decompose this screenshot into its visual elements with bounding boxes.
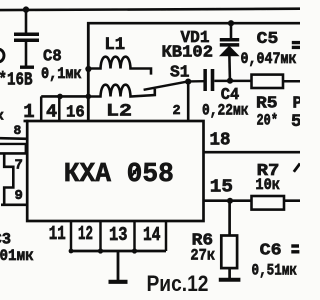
wire to pin 2	[187, 82, 190, 122]
node R6 tap	[227, 198, 233, 204]
node box13/14 corner	[132, 248, 137, 253]
svg-text:КХА 058: КХА 058	[64, 159, 174, 189]
wire top rail A	[0, 9, 300, 10]
wire pin 18	[204, 151, 301, 154]
svg-text:Рис.12: Рис.12	[147, 271, 209, 296]
svg-text:*16В: *16В	[0, 71, 33, 91]
svg-text:1: 1	[23, 101, 34, 123]
node box11 corner	[69, 249, 74, 254]
node VD1 tap on rail B	[228, 20, 234, 26]
svg-text:0,22мк: 0,22мк	[202, 102, 249, 120]
node L1 tap	[85, 66, 91, 72]
wire R6 stem	[228, 201, 231, 236]
svg-text:20*: 20*	[257, 112, 279, 130]
capacitor C5	[292, 41, 300, 44]
partial component tick at right edge	[294, 164, 300, 172]
ground pin 13	[109, 280, 128, 284]
svg-text:15: 15	[210, 177, 233, 198]
svg-text:8: 8	[14, 123, 22, 138]
wire C4 to R5	[214, 80, 251, 83]
inductor L1	[88, 57, 151, 75]
wire L-tank left wall	[87, 22, 90, 122]
wire pin 8 box bottom	[0, 137, 27, 140]
switch S1 arm	[144, 81, 188, 89]
node at box 4/16 divider	[57, 94, 63, 100]
wire chip top edge stub left	[24, 120, 29, 123]
svg-text:Р: Р	[293, 94, 301, 113]
svg-text:14: 14	[143, 224, 161, 246]
svg-text:L2: L2	[106, 102, 132, 122]
wire top rail B	[87, 22, 300, 25]
pin box walls bottom	[70, 221, 73, 251]
svg-text:4: 4	[46, 101, 57, 122]
svg-text:11: 11	[49, 223, 66, 245]
wire over pin boxes 4,16	[41, 95, 88, 98]
svg-text:0,1мк: 0,1мк	[41, 65, 82, 83]
capacitor C4	[203, 69, 207, 91]
svg-text:L1: L1	[104, 35, 125, 55]
wire pin 15	[204, 199, 301, 202]
wire R6 to ground	[228, 268, 231, 279]
svg-text:12: 12	[78, 223, 93, 245]
wire pin 13 to ground	[117, 251, 120, 281]
svg-text:18: 18	[210, 131, 231, 151]
wire stub left	[0, 144, 26, 153]
diode VD1 varicap	[230, 23, 233, 38]
node box12/13 corner	[98, 248, 103, 253]
resistor R5	[252, 75, 284, 88]
svg-text:C5: C5	[257, 30, 279, 49]
svg-text:16: 16	[66, 104, 85, 123]
svg-text:КВ102: КВ102	[162, 44, 214, 63]
ground C8 bottom bar	[20, 65, 34, 68]
pin box walls 4,16	[40, 96, 43, 121]
svg-text:R5: R5	[256, 93, 278, 112]
inductor L2	[88, 85, 155, 97]
svg-text:10к: 10к	[255, 176, 280, 194]
svg-text:0,047мк: 0,047мк	[241, 50, 297, 68]
resistor R6	[221, 236, 237, 269]
resistor R7	[252, 196, 285, 210]
pin boxes 11-14 bottom bar	[70, 250, 167, 253]
pin 7/9 box bracket	[0, 153, 27, 204]
svg-text:13: 13	[109, 224, 128, 246]
svg-text:01мк: 01мк	[0, 247, 34, 265]
svg-text:5: 5	[291, 112, 300, 132]
node wall joint	[86, 94, 92, 100]
node C4/R5/VD1 junction	[227, 78, 233, 84]
partial capacitor C7 glyph at left edge	[0, 49, 4, 62]
capacitor C8	[25, 10, 28, 34]
svg-text:C6: C6	[260, 241, 282, 260]
node C8 tap on rail A	[23, 6, 29, 12]
wire R5 out	[283, 80, 300, 83]
chip label zero slash	[131, 167, 139, 178]
svg-text:7: 7	[15, 158, 23, 174]
svg-text:0,51мк: 0,51мк	[252, 261, 298, 279]
svg-text:С3: С3	[0, 231, 11, 249]
wire S1 to C4	[188, 80, 204, 83]
capacitor C6	[291, 244, 299, 247]
svg-text:C8: C8	[43, 48, 62, 67]
ground R6	[219, 278, 241, 282]
svg-text:9: 9	[15, 188, 23, 204]
node switch common	[185, 79, 191, 85]
svg-text:к: к	[0, 109, 4, 125]
svg-text:27к: 27к	[190, 247, 215, 265]
svg-text:2: 2	[173, 104, 181, 119]
op-amp U1 chip body KXA058	[27, 121, 203, 221]
